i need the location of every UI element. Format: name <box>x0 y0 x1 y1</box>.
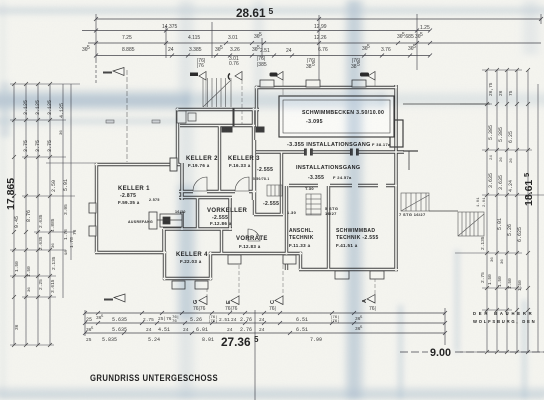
vorrate top door arc <box>248 229 260 241</box>
vestibule inner rects <box>177 111 196 123</box>
tiny vent marks <box>106 120 114 123</box>
marker H <box>190 72 206 108</box>
vertical end x=541 <box>540 14 542 24</box>
tick marks top chains <box>94 17 543 58</box>
top chain line 4 <box>96 55 430 57</box>
top chain start vertical <box>95 14 97 60</box>
ticks bottom <box>83 311 447 335</box>
bottom chain labels row1 <box>86 315 363 324</box>
9.00 big <box>428 345 455 357</box>
extra verticals <box>212 22 262 58</box>
scan streak horizontal y~120 <box>0 116 180 126</box>
marker F <box>228 72 242 126</box>
top wall bumps <box>260 80 274 87</box>
entry stair north <box>203 78 231 107</box>
marker G <box>193 282 207 312</box>
marker A <box>362 272 376 312</box>
K3 door arc <box>235 177 249 191</box>
marker E <box>225 259 239 312</box>
vestibule door assembly <box>149 212 182 229</box>
east wing lower walls <box>403 150 418 152</box>
scan streak horizontal top <box>0 5 544 16</box>
scan streak bottom band <box>0 385 544 400</box>
marker left <box>103 68 127 163</box>
bottom chain labels row3 <box>86 337 322 343</box>
top chain line 2 <box>82 30 430 32</box>
SE walkway <box>429 210 458 212</box>
KELLER4 bottom bumps <box>172 281 185 289</box>
vertical faint line x~400 bottom <box>398 305 403 400</box>
scan streak horizontal band y~90 <box>0 87 190 113</box>
vertical drop x=319 <box>318 15 320 84</box>
top chain line 3 <box>88 42 541 44</box>
SE stair block <box>401 193 429 211</box>
left chain rotated labels <box>14 100 78 330</box>
wall skeleton light core pass <box>95 85 404 280</box>
wall skeleton dark pass <box>95 85 404 280</box>
exterior stair east (hatched) <box>458 212 484 236</box>
vertical streak x~355 <box>342 0 367 400</box>
horizontal ticks rows <box>10 83 80 85</box>
ticks <box>482 69 522 71</box>
KELLER1 left bumps <box>89 203 96 213</box>
vertical streak x~186 <box>174 0 199 400</box>
vertical drop x=166 <box>165 26 167 58</box>
marker B <box>360 72 375 87</box>
top chain line 28.615 <box>96 18 541 20</box>
east wing window bay <box>390 120 403 147</box>
bumps below south wall <box>335 271 349 279</box>
K2 door arc <box>193 177 207 191</box>
schwimmbad technik stair <box>306 194 321 215</box>
east terrace line y=104 <box>403 103 490 105</box>
marker bottom-left <box>104 294 125 302</box>
marker C <box>269 259 283 312</box>
bumps below wall y=256 <box>228 255 241 264</box>
left edge blue <box>0 82 10 137</box>
marker D <box>270 72 284 96</box>
right top bluish patches <box>518 0 544 55</box>
vertical drop x=397 <box>416 14 418 70</box>
bottom chain labels row2 <box>86 326 363 333</box>
